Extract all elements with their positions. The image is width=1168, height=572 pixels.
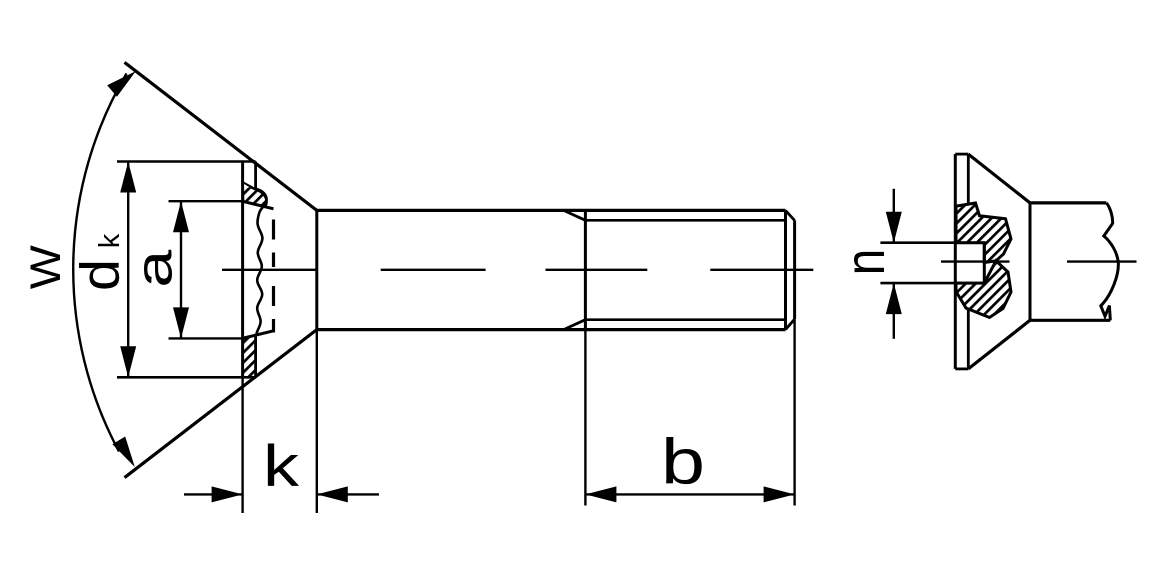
right view junction line (1029, 203, 1032, 320)
thread end line (784, 210, 787, 329)
right view centerline (941, 260, 1137, 262)
right view rim top edge (955, 153, 968, 156)
socket depth hidden dashed line (272, 220, 275, 333)
head rim edge bottom (main view) (254, 334, 257, 377)
dimension b extension line left (584, 330, 586, 506)
slot upper line + n extension (880, 241, 984, 244)
label a (126, 249, 183, 288)
svg-text:k: k (263, 434, 300, 499)
svg-text:n: n (833, 249, 896, 276)
label W (22, 245, 70, 289)
svg-text:a: a (126, 249, 183, 288)
head rim edge top (main view) (254, 162, 257, 189)
slot lower line + n extension (880, 282, 984, 285)
head rim bottom edge + dk extension line bottom (117, 376, 256, 379)
head-shank junction line (315, 210, 318, 329)
slot right edge (983, 243, 986, 283)
shank top outline (317, 209, 786, 212)
head rim top edge + dk extension line top (117, 160, 256, 163)
right view cone upper (968, 154, 1030, 203)
right view rim edge upper (967, 154, 970, 203)
end chamfer top (786, 210, 795, 220)
recess upper hatched lobe (right view) (956, 203, 1011, 263)
thread minor diameter bottom (585, 318, 786, 321)
right view rim edge lower (967, 308, 970, 369)
dimension k extension line left (241, 377, 243, 513)
dimension a extension line bottom (169, 337, 248, 339)
svg-text:W: W (22, 245, 70, 289)
dimension b extension line right (793, 319, 795, 505)
thread runout taper top (564, 210, 586, 220)
dimension a extension line top (169, 200, 244, 202)
thread start line (584, 210, 587, 329)
screw end face (793, 220, 796, 319)
head cone lower line with W extension (125, 330, 317, 478)
end chamfer bottom (786, 319, 795, 329)
head face line (main view) (241, 162, 244, 378)
socket entry slant top (243, 201, 274, 208)
label dk (69, 233, 131, 291)
dimension b line with arrows (585, 486, 794, 502)
dimension a line with arrows (173, 201, 189, 338)
break zigzag line (1101, 203, 1119, 320)
thread minor diameter top (585, 219, 786, 222)
head cone upper line with W extension (125, 62, 317, 210)
label k (263, 434, 300, 499)
socket section hatch lower (main view) (243, 335, 257, 377)
dimension n upper arrow (886, 189, 902, 243)
label n (833, 249, 896, 276)
socket section hatch upper (main view) (243, 183, 267, 207)
dimension k extension line right (316, 330, 318, 513)
dimension k line with outside arrows (184, 486, 379, 502)
angle W dimension arc (73, 71, 136, 467)
right view head face line (954, 154, 957, 369)
right view shank top (1030, 201, 1106, 204)
dimension dk line with arrows (120, 162, 136, 378)
main axis centerline (222, 269, 813, 271)
right view rim bottom edge (955, 367, 968, 370)
recess lower hatched lobe (right view) (956, 261, 1011, 318)
socket entry slant bottom (243, 331, 274, 338)
thread runout taper bottom (564, 320, 586, 330)
label b (661, 426, 705, 498)
dimension n lower arrow (886, 283, 902, 339)
right view shank bottom (1030, 319, 1110, 322)
svg-text:d: d (69, 259, 131, 291)
right view cone lower (968, 320, 1030, 369)
break-out wavy line (255, 189, 266, 335)
shank bottom outline (317, 328, 786, 331)
svg-text:b: b (661, 426, 705, 498)
svg-text:k: k (94, 233, 126, 248)
